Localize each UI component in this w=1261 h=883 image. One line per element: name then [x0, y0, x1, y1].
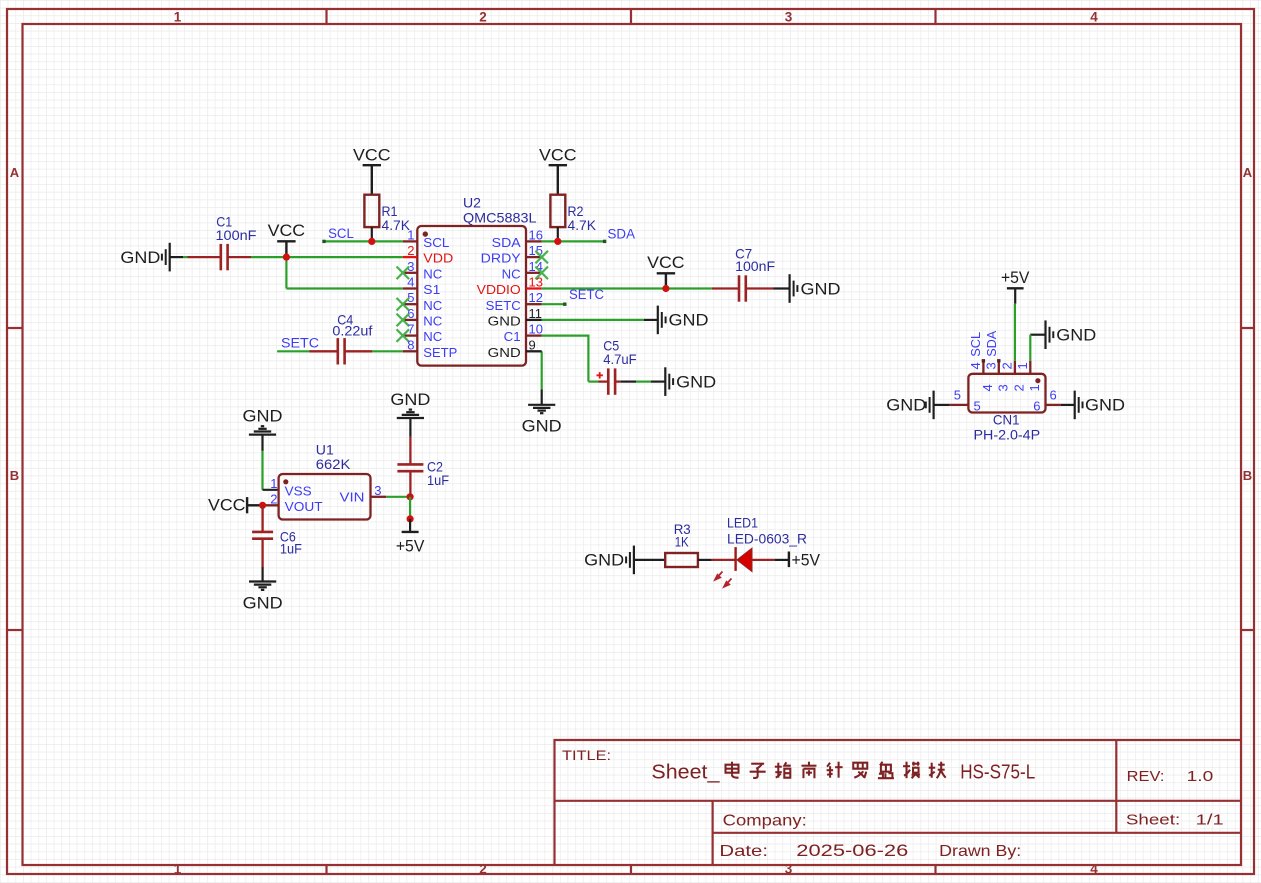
svg-text:3: 3: [374, 483, 381, 498]
CN1 pin 6: [1046, 404, 1061, 406]
svg-text:100nF: 100nF: [735, 258, 775, 274]
wire U2 pin13 VDDIO to VCC/C7: [542, 287, 712, 289]
junction VCC/C7 row: [662, 285, 669, 292]
U2 pin 11 GND: [526, 319, 542, 321]
CN1 pin 3: [998, 361, 1000, 374]
svg-text:Company:: Company:: [723, 813, 807, 830]
resistor R3: [665, 553, 698, 567]
no-connect X pin 6: [397, 314, 410, 327]
svg-text:VDDIO: VDDIO: [477, 282, 521, 297]
U2 pin 9 GND: [526, 350, 542, 352]
svg-text:GND: GND: [120, 248, 160, 267]
power flag GND at U2 pin11: [644, 319, 658, 321]
connector CN1 PH-2.0-4P body: [968, 374, 1045, 413]
svg-text:+5V: +5V: [1001, 269, 1030, 287]
no-connect X pin 15: [535, 251, 548, 264]
CN1 pin 5: [949, 404, 968, 406]
wire U2 pin9 down to GND: [541, 351, 543, 389]
svg-text:3: 3: [785, 862, 793, 877]
svg-text:3: 3: [785, 10, 793, 25]
svg-text:Sheet_: Sheet_: [651, 762, 720, 784]
svg-text:1: 1: [174, 10, 182, 25]
IC U2 QMC5883L body: [417, 226, 526, 366]
U1 pin-1 indicator dot: [283, 479, 288, 484]
ground GND above C2: [397, 417, 424, 419]
svg-text:5: 5: [954, 387, 961, 402]
power flag GND left of C1: [161, 254, 163, 261]
svg-text:C1: C1: [504, 329, 521, 344]
capacitor C7: [712, 287, 739, 289]
svg-text:10: 10: [529, 322, 543, 337]
svg-text:GND: GND: [390, 390, 430, 409]
svg-text:SETP: SETP: [423, 345, 457, 360]
svg-text:Date:: Date:: [719, 843, 768, 860]
capacitor C1: [188, 256, 221, 258]
svg-text:2: 2: [407, 243, 414, 258]
wire +5V to CN1 pin2: [1014, 304, 1016, 361]
svg-text:2: 2: [1000, 362, 1015, 369]
svg-text:1K: 1K: [675, 534, 690, 550]
svg-text:11: 11: [529, 306, 543, 321]
svg-text:4: 4: [407, 275, 414, 290]
svg-text:SCL: SCL: [968, 332, 983, 357]
svg-text:VCC: VCC: [353, 147, 391, 165]
svg-text:4: 4: [1090, 862, 1098, 877]
svg-text:5: 5: [974, 398, 981, 413]
svg-text:LED1: LED1: [727, 515, 758, 531]
svg-text:2025-06-26: 2025-06-26: [796, 841, 908, 860]
U2 pin 13 VDDIO: [526, 287, 542, 289]
wire SCL net to U2 pin 1: [324, 240, 403, 242]
svg-text:4.7K: 4.7K: [382, 217, 411, 233]
svg-text:VCC: VCC: [647, 254, 685, 272]
power flag GND right of C5: [664, 367, 666, 396]
svg-text:S1: S1: [423, 282, 440, 297]
svg-text:GND: GND: [522, 417, 562, 436]
svg-text:3: 3: [996, 384, 1011, 391]
LED LED1: [734, 547, 736, 571]
U1 pin3 wire to junction: [371, 496, 387, 498]
svg-text:3: 3: [984, 362, 999, 369]
wire U2 pin11 to GND: [542, 319, 644, 321]
U2 pin 14 NC: [526, 272, 542, 274]
power flag GND right of CN1 pin1: [1030, 334, 1045, 336]
ground GND below U2 pin9: [541, 390, 543, 405]
wire GND/C1/VCC to U2 pin 2 (VDD net): [183, 256, 188, 258]
wire GND to CN1 pin1: [1029, 335, 1031, 361]
CN1 pin 4: [982, 361, 984, 374]
svg-text:6: 6: [1033, 398, 1040, 413]
svg-text:2: 2: [479, 862, 487, 877]
wire VCC junction down to U2 pin 4: [285, 257, 287, 288]
svg-text:0.22uf: 0.22uf: [332, 323, 372, 339]
svg-text:NC: NC: [423, 329, 442, 344]
capacitor C4: [310, 350, 338, 352]
wire GND down to U1 pin1: [261, 451, 263, 490]
svg-text:SDA: SDA: [608, 227, 636, 242]
svg-text:U1: U1: [316, 441, 334, 457]
no-connect X pin 14: [535, 267, 548, 280]
svg-text:1/1: 1/1: [1196, 811, 1224, 828]
svg-text:1.0: 1.0: [1187, 768, 1214, 785]
wire VIN junction to +5V: [409, 497, 411, 519]
U2 pin 4 S1: [403, 287, 418, 289]
junction VIN/C2/+5V: [407, 493, 414, 500]
U2 pin 16 SDA: [526, 240, 542, 242]
svg-text:VCC: VCC: [208, 497, 246, 515]
junction VCC/pin2 row: [283, 254, 290, 261]
junction R2/SDA: [554, 238, 561, 245]
svg-text:1uF: 1uF: [427, 472, 449, 488]
junction +5V node: [407, 515, 414, 522]
capacitor C2: [409, 437, 411, 465]
svg-text:CN1: CN1: [993, 412, 1020, 428]
U2 pin 3 NC: [403, 272, 418, 274]
wire U2 pin12 to SETC label: [542, 303, 565, 305]
power flag +5V right of LED1: [775, 559, 789, 561]
svg-text:12: 12: [529, 290, 543, 305]
U2 pin 10 C1: [526, 334, 542, 336]
wire C5 row: [588, 381, 598, 383]
svg-text:TITLE:: TITLE:: [562, 748, 611, 763]
CN1 pin 2: [1014, 361, 1016, 374]
svg-text:VOUT: VOUT: [285, 499, 323, 514]
svg-text:GND: GND: [488, 345, 521, 360]
svg-text:4.7K: 4.7K: [568, 217, 597, 233]
wire U2 pin10 to C5: [542, 336, 589, 382]
svg-text:4: 4: [1090, 10, 1098, 25]
svg-text:U2: U2: [463, 195, 481, 211]
svg-text:662K: 662K: [316, 456, 351, 472]
power flag GND right of C7: [774, 287, 790, 289]
svg-text:HS-S75-L: HS-S75-L: [960, 762, 1035, 784]
resistor R2: [550, 195, 565, 227]
svg-text:1: 1: [174, 862, 182, 877]
svg-text:SDA: SDA: [984, 330, 999, 356]
U2 pin 2 VDD: [403, 256, 418, 258]
svg-text:VCC: VCC: [539, 147, 577, 165]
wire SETC/C4 to U2 pin 8: [277, 350, 309, 352]
svg-text:PH-2.0-4P: PH-2.0-4P: [974, 426, 1041, 442]
svg-text:16: 16: [529, 227, 543, 242]
svg-text:NC: NC: [423, 266, 442, 281]
svg-text:SETC: SETC: [486, 298, 521, 313]
svg-text:VIN: VIN: [340, 490, 365, 505]
LED1 emission arrows: [715, 572, 732, 587]
svg-text:SDA: SDA: [492, 235, 521, 250]
svg-text:2: 2: [479, 10, 487, 25]
svg-text:SCL: SCL: [328, 226, 354, 241]
svg-text:GND: GND: [488, 314, 521, 329]
svg-text:SETC: SETC: [569, 287, 604, 302]
junction R1/SCL: [368, 238, 375, 245]
svg-text:1: 1: [1015, 362, 1030, 369]
no-connect X pin 5: [397, 298, 410, 311]
capacitor C5 (polarized): [597, 372, 603, 378]
capacitor C6: [261, 505, 263, 532]
svg-text:B: B: [10, 468, 19, 483]
svg-text:SCL: SCL: [423, 235, 449, 250]
resistor R1: [364, 195, 379, 227]
svg-text:VCC: VCC: [268, 222, 306, 240]
svg-text:6: 6: [1050, 387, 1057, 402]
svg-text:SETC: SETC: [281, 335, 319, 350]
U2 pin-1 indicator dot: [423, 231, 428, 236]
svg-text:4.7uF: 4.7uF: [603, 351, 637, 367]
svg-text:VSS: VSS: [285, 484, 312, 499]
svg-text:1: 1: [1027, 384, 1042, 391]
svg-text:REV:: REV:: [1127, 768, 1165, 785]
power flag +5V below U1: [402, 531, 419, 533]
ground GND above U1 pin1: [249, 434, 276, 436]
svg-text:NC: NC: [423, 298, 442, 313]
title text (CJK hand-drawn): [726, 762, 739, 778]
U2 pin 15 DRDY: [526, 256, 542, 258]
power flag GND left of R3: [625, 557, 627, 564]
svg-text:+5V: +5V: [792, 551, 821, 569]
svg-text:13: 13: [529, 275, 543, 290]
CN1 pin-1 indicator dot: [1035, 378, 1040, 383]
U2 pin 7 NC: [403, 334, 418, 336]
svg-text:NC: NC: [502, 266, 521, 281]
svg-text:QMC5883L: QMC5883L: [463, 209, 537, 225]
ground GND below C6: [262, 567, 264, 581]
svg-text:A: A: [10, 165, 20, 180]
svg-text:VDD: VDD: [423, 251, 453, 266]
U2 pin 12 SETC: [526, 303, 542, 305]
U2 pin 5 NC: [403, 303, 418, 305]
power flag GND left of CN1 pin5: [934, 404, 950, 406]
svg-text:1: 1: [270, 476, 277, 491]
svg-text:100nF: 100nF: [216, 227, 257, 243]
U2 pin 6 NC: [403, 319, 418, 321]
svg-text:GND: GND: [886, 396, 926, 415]
no-connect X pin 7: [397, 329, 410, 342]
svg-text:GND: GND: [243, 407, 283, 426]
svg-text:9: 9: [529, 337, 536, 352]
svg-text:B: B: [1243, 468, 1252, 483]
regulator U1 662K body: [279, 474, 371, 520]
junction U1 pin2 / C6: [263, 504, 279, 506]
svg-text:4: 4: [968, 362, 983, 369]
CN1 pin 1: [1029, 361, 1031, 374]
no-connect X pin 3: [397, 267, 410, 280]
svg-text:DRDY: DRDY: [481, 251, 521, 266]
svg-text:GND: GND: [1085, 396, 1125, 415]
svg-text:GND: GND: [243, 593, 283, 612]
U2 pin 1 SCL: [403, 240, 418, 242]
svg-text:LED-0603_R: LED-0603_R: [727, 530, 807, 546]
svg-text:GND: GND: [1056, 326, 1096, 345]
svg-text:A: A: [1243, 165, 1253, 180]
svg-text:GND: GND: [676, 372, 716, 391]
svg-text:NC: NC: [423, 314, 442, 329]
svg-text:+5V: +5V: [396, 538, 425, 556]
svg-text:GND: GND: [669, 311, 709, 330]
svg-text:2: 2: [1012, 384, 1027, 391]
U2 pin 8 SETP: [403, 350, 418, 352]
svg-text:1uF: 1uF: [280, 540, 302, 556]
svg-text:8: 8: [407, 337, 414, 352]
svg-text:GND: GND: [801, 279, 841, 298]
svg-text:Drawn By:: Drawn By:: [939, 843, 1021, 860]
svg-text:Sheet:: Sheet:: [1126, 811, 1180, 828]
svg-text:GND: GND: [584, 551, 624, 570]
wire U2 pin16 to SDA label: [542, 240, 605, 242]
wire R3 to LED1: [698, 559, 712, 561]
power flag GND right of CN1 pin6: [1061, 404, 1075, 406]
svg-text:4: 4: [980, 384, 995, 391]
